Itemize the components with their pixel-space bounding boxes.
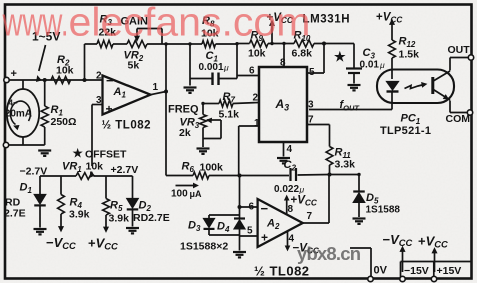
- label 1S1588 D5: [366, 205, 401, 216]
- label VR1: [62, 161, 82, 175]
- label R12: [399, 36, 416, 50]
- label A3: [275, 97, 290, 113]
- pin 4 A3: [284, 142, 293, 157]
- LED inside PC1: [387, 82, 399, 110]
- label LM331H: [303, 14, 351, 26]
- label A1: [113, 86, 127, 100]
- junction A1 output: [164, 90, 168, 94]
- capacitor C3: [346, 44, 362, 84]
- wire input top: [9, 79, 103, 81]
- label 250ohm: [51, 116, 77, 128]
- label C2: [284, 159, 297, 173]
- power +Vcc top: [267, 12, 294, 44]
- svg-text:100: 100: [171, 189, 188, 200]
- resistor R8: [202, 41, 216, 48]
- ground below D2: [126, 228, 139, 233]
- wire pin3 to VR1 wiper: [90, 172, 94, 177]
- svg-text:1.5k: 1.5k: [399, 49, 420, 61]
- svg-text:FREQ: FREQ: [168, 104, 199, 116]
- svg-text:3.9k: 3.9k: [109, 213, 130, 225]
- ground below D1: [34, 229, 47, 234]
- label D4: [217, 221, 230, 235]
- svg-text:ybx8.cn: ybx8.cn: [297, 243, 361, 264]
- power -Vcc right: [383, 232, 413, 248]
- svg-text:20mA: 20mA: [5, 109, 32, 120]
- svg-text:1S1588: 1S1588: [366, 205, 401, 216]
- label -2.7V: [20, 166, 48, 178]
- resistor R5: [103, 176, 110, 232]
- pin 4 A2 with -Vcc: [285, 231, 320, 256]
- resistor R1: [41, 80, 48, 145]
- pin 3 A3: [308, 100, 314, 111]
- svg-text:5: 5: [247, 226, 253, 237]
- svg-text:+: +: [261, 231, 268, 245]
- wire pin6 node vertical: [239, 176, 241, 216]
- ground below C3: [348, 85, 361, 90]
- potentiometer VR1: [76, 173, 94, 180]
- svg-text:μA: μA: [190, 189, 203, 199]
- wire clamp top rail: [209, 214, 240, 216]
- optocoupler PC1 body: [377, 70, 454, 104]
- svg-text:250Ω: 250Ω: [51, 116, 77, 128]
- wire C1 left vertical: [189, 44, 191, 86]
- wire clamp bottom rail: [209, 235, 240, 251]
- junction rail top B: [270, 42, 285, 45]
- label 3.9k R5: [109, 213, 130, 225]
- label 5k: [128, 60, 140, 72]
- wire pin6 A2: [238, 205, 258, 209]
- label C1: [206, 50, 219, 64]
- wire A2 output: [303, 175, 329, 224]
- label PC1: [401, 113, 421, 127]
- junction pin2 node: [83, 78, 87, 82]
- label 0.022u: [274, 184, 305, 195]
- junction R1 top: [43, 78, 47, 82]
- terminal box -15V +15V: [401, 262, 472, 278]
- node + input terminal: [4, 68, 17, 83]
- wire pin6 A3: [237, 75, 259, 77]
- svg-text:2.7E: 2.7E: [4, 208, 26, 220]
- label 1.5k: [399, 49, 420, 61]
- svg-text:8: 8: [280, 58, 286, 69]
- junction D5 top: [357, 173, 360, 176]
- svg-text:0.001: 0.001: [199, 62, 224, 73]
- label R3: [100, 14, 113, 28]
- svg-text:+15V: +15V: [437, 265, 462, 277]
- wire pin1 A3: [239, 126, 259, 176]
- wire A1 output: [151, 92, 167, 95]
- wire rail R9 R10: [237, 43, 354, 45]
- label R9: [251, 30, 264, 44]
- wire source bottom: [22, 137, 24, 145]
- svg-text:μ: μ: [223, 63, 229, 73]
- svg-text:6: 6: [249, 66, 255, 77]
- svg-text:OUT: OUT: [448, 44, 471, 56]
- resistor R11: [326, 147, 333, 175]
- node +15V terminal: [431, 248, 437, 282]
- light arrows PC1: [405, 83, 427, 89]
- label 1S1588x2: [180, 241, 228, 253]
- capacitor C1: [190, 73, 237, 86]
- wire C2 to D5: [298, 174, 360, 177]
- label 3.9k R4: [69, 209, 90, 221]
- resistor R6: [193, 172, 209, 179]
- watermark ybx8.cn: [297, 243, 361, 264]
- IC A3 box: [259, 67, 307, 142]
- wire pin5 A3 route: [307, 42, 326, 74]
- wire R3 left vertical: [84, 44, 86, 80]
- star mark OFFSET: [73, 147, 84, 160]
- label C3: [363, 47, 376, 61]
- pin 1 A3: [254, 118, 260, 129]
- label TLP521-1: [380, 125, 431, 137]
- label D1: [20, 182, 33, 196]
- label OFFSET: [85, 149, 127, 161]
- power +Vcc right: [418, 234, 448, 250]
- pin 8 A2 with +Vcc: [285, 195, 318, 216]
- pin 5 A2: [247, 226, 253, 237]
- wire C1 top rail: [190, 43, 237, 45]
- label 0.01u: [360, 60, 386, 71]
- label D2: [139, 200, 152, 214]
- ground below pin4 A3: [277, 158, 290, 163]
- label RD2.7E D2: [133, 212, 170, 224]
- label R11: [335, 147, 352, 161]
- power -Vcc left: [46, 235, 76, 251]
- label RD D1: [5, 197, 21, 209]
- wire collector to OUT: [450, 58, 469, 71]
- label R6: [182, 161, 195, 175]
- star mark C3: [334, 49, 346, 64]
- resistor R12: [389, 40, 396, 79]
- ground below D5: [353, 219, 366, 224]
- wire mid rail to C2: [240, 175, 290, 177]
- diode D5: [353, 175, 365, 218]
- label D5: [366, 192, 379, 206]
- resistor R3: [97, 40, 113, 47]
- svg-text:4~: 4~: [9, 99, 18, 108]
- ground below VR3: [197, 149, 210, 154]
- op-amp A1: [103, 73, 151, 116]
- junction R11 bottom: [328, 173, 332, 177]
- svg-text:−15V: −15V: [404, 265, 429, 277]
- svg-text:0.01: 0.01: [360, 60, 380, 71]
- wire 0V: [350, 248, 371, 277]
- label 10k R9: [248, 48, 266, 60]
- phototransistor PC1: [433, 71, 450, 100]
- svg-text:3.3k: 3.3k: [335, 159, 356, 171]
- svg-text:2k: 2k: [179, 127, 191, 139]
- svg-text:4: 4: [287, 144, 293, 155]
- svg-text:10k: 10k: [56, 65, 74, 77]
- label R1: [51, 104, 64, 118]
- watermark www.elecfans.com: [2, 1, 311, 45]
- label half TL082 A1: [102, 120, 152, 132]
- node - input terminal: [3, 142, 8, 147]
- resistor R2: [51, 76, 71, 83]
- svg-text:www.: www.: [2, 1, 69, 45]
- svg-text:−: −: [261, 201, 269, 216]
- svg-text:2: 2: [96, 71, 102, 82]
- label 3.3k: [335, 159, 356, 171]
- label 22k: [99, 27, 117, 39]
- diode D3: [204, 215, 215, 235]
- wire pin3 A1: [92, 105, 103, 167]
- svg-text:½ TL082: ½ TL082: [102, 120, 152, 132]
- node COM terminal: [446, 110, 473, 125]
- svg-text:0.022: 0.022: [274, 184, 299, 195]
- svg-text:★: ★: [334, 49, 346, 64]
- label GAIN: [121, 16, 149, 28]
- wire C1 right vertical: [236, 44, 238, 79]
- junction VR3 top: [201, 102, 204, 105]
- svg-text:elecfans.com: elecfans.com: [69, 1, 311, 45]
- svg-text:6.8k: 6.8k: [292, 48, 313, 60]
- resistor R9: [250, 40, 269, 47]
- power +Vcc R12: [376, 12, 403, 41]
- pin 7 A2: [307, 211, 313, 222]
- node 0V terminal: [368, 265, 388, 282]
- wire A1 output vertical: [165, 44, 167, 176]
- svg-text:μ: μ: [379, 60, 385, 70]
- label fOUT: [340, 99, 361, 113]
- resistor R10: [294, 40, 314, 47]
- svg-text:0V: 0V: [374, 265, 388, 277]
- junction mid rail: [238, 174, 242, 178]
- svg-text:6: 6: [249, 202, 255, 213]
- wire feedback rail: [85, 43, 191, 45]
- pin 1 A1: [153, 82, 159, 93]
- label 6.8k: [292, 48, 313, 60]
- potentiometer VR2: [127, 29, 162, 48]
- annotation arrow 1-5V: [37, 45, 46, 82]
- label 2.7E D1: [4, 208, 26, 220]
- label 10k VR1: [86, 161, 104, 173]
- svg-text:OFFSET: OFFSET: [85, 149, 127, 161]
- svg-text:100k: 100k: [200, 162, 224, 174]
- label 5.1k: [219, 109, 240, 121]
- wire input bottom: [9, 144, 45, 146]
- label FREQ: [168, 104, 199, 116]
- svg-text:RD2.7E: RD2.7E: [133, 212, 170, 224]
- label R10: [294, 30, 311, 44]
- label 10k R2: [56, 65, 74, 77]
- label -15V: [404, 265, 429, 277]
- pin 5 A3: [309, 67, 315, 78]
- node -15V terminal: [400, 247, 405, 282]
- svg-text:3.9k: 3.9k: [69, 209, 90, 221]
- annotation 100uA arrow: [176, 183, 199, 187]
- wire pin2 A3: [203, 103, 259, 104]
- ground below R1: [38, 151, 51, 156]
- label 10k R8: [201, 28, 219, 40]
- resistor R7: [219, 100, 233, 107]
- wire pin7 A3: [307, 125, 330, 147]
- wire pin5 A2: [240, 235, 258, 237]
- svg-text:★: ★: [73, 147, 84, 160]
- label R8: [202, 15, 215, 29]
- label +15V: [437, 265, 462, 277]
- label 100k: [200, 162, 224, 174]
- label 0.001u: [199, 62, 230, 73]
- label R7: [223, 91, 236, 105]
- label 1~5V: [32, 30, 60, 44]
- wire fOUT: [309, 109, 392, 111]
- svg-text:5k: 5k: [128, 60, 140, 72]
- power +Vcc left: [88, 236, 118, 252]
- zener D1: [34, 176, 46, 228]
- pin 2 A3: [253, 93, 259, 104]
- ground below C1: [184, 88, 197, 93]
- label A2: [266, 218, 280, 232]
- label R4: [70, 197, 83, 211]
- label 100uA: [171, 189, 202, 200]
- capacitor C2: [291, 168, 297, 181]
- svg-text:5: 5: [309, 67, 315, 78]
- pin 7 A3: [308, 115, 314, 126]
- svg-text:5.1k: 5.1k: [219, 109, 240, 121]
- svg-text:+: +: [11, 68, 17, 80]
- wire emitter to COM: [450, 101, 467, 113]
- pin 6 A2: [249, 202, 255, 213]
- ground below clamp: [233, 252, 246, 257]
- label +2.7V: [111, 164, 139, 176]
- label D3: [188, 220, 201, 234]
- svg-text:1S1588×2: 1S1588×2: [180, 241, 228, 253]
- label R5: [110, 200, 123, 214]
- diode D4: [234, 215, 245, 235]
- zener D2: [127, 176, 139, 227]
- svg-text:+2.7V: +2.7V: [111, 164, 139, 176]
- svg-text:7: 7: [307, 211, 313, 222]
- svg-text:TLP521-1: TLP521-1: [380, 125, 431, 137]
- svg-text:10k: 10k: [248, 48, 266, 60]
- svg-text:10k: 10k: [86, 161, 104, 173]
- wire mid rail left: [166, 175, 240, 177]
- svg-text:½ TL082: ½ TL082: [254, 264, 310, 279]
- svg-text:+: +: [106, 102, 113, 116]
- wire source top: [22, 80, 24, 89]
- svg-text:1: 1: [153, 82, 159, 93]
- pin 2 A1: [96, 71, 102, 82]
- label R2: [57, 54, 70, 68]
- pin 3 A1: [96, 95, 102, 106]
- svg-text:μ: μ: [299, 185, 305, 195]
- label 2k: [179, 127, 191, 139]
- label VR3: [180, 117, 200, 131]
- pin 8 A3: [280, 44, 286, 69]
- svg-text:COM: COM: [446, 113, 471, 125]
- svg-text:1: 1: [254, 118, 260, 129]
- label VR2: [124, 50, 144, 64]
- potentiometer VR3: [200, 104, 221, 148]
- node OUT terminal: [448, 44, 474, 60]
- wire rail 2.7V: [40, 175, 133, 177]
- resistor R4: [58, 176, 65, 232]
- label half TL082 A2: [254, 264, 310, 279]
- op-amp A2: [258, 199, 303, 247]
- current source CS1: [5, 89, 39, 137]
- junction rail top A: [164, 42, 238, 46]
- pin 6 A3: [249, 66, 255, 77]
